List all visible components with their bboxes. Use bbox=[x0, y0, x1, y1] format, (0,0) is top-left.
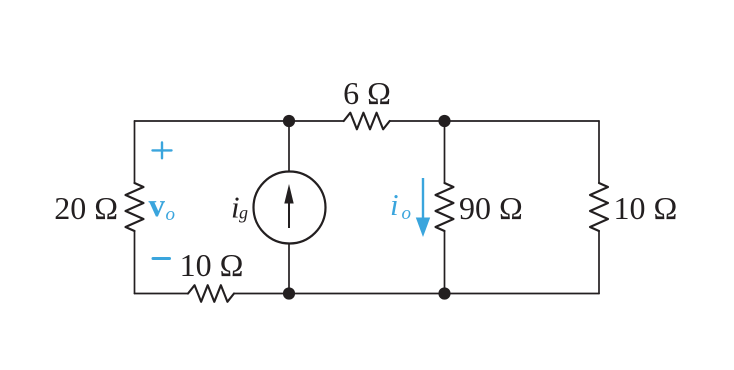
wire left lower bbox=[134, 231, 136, 294]
resistor 20 ohm (left) bbox=[126, 183, 144, 231]
junction node bottom-right bbox=[438, 287, 450, 299]
svg-text:10 Ω: 10 Ω bbox=[614, 190, 678, 226]
minus sign polarity vo bbox=[153, 257, 170, 260]
wire bottom-left segment bbox=[234, 293, 289, 295]
resistor 90 ohm (middle) bbox=[436, 183, 454, 231]
svg-text:90 Ω: 90 Ω bbox=[459, 190, 523, 226]
current source ig circle bbox=[254, 172, 326, 244]
wire middle branch bottom bbox=[288, 244, 290, 294]
wire top-left segment bbox=[135, 120, 344, 122]
wire right side bbox=[598, 121, 600, 183]
current source arrow bbox=[284, 184, 293, 228]
wire bottom-middle segment bbox=[289, 293, 445, 295]
junction node top-middle bbox=[283, 115, 295, 127]
svg-text:v: v bbox=[149, 188, 166, 224]
wire bottom-right segment bbox=[445, 293, 600, 295]
resistor 6 ohm (top) bbox=[344, 113, 390, 130]
wire right lower bbox=[598, 231, 600, 294]
svg-text:o: o bbox=[402, 203, 412, 224]
svg-text:20 Ω: 20 Ω bbox=[54, 190, 118, 226]
wire 90-ohm branch top bbox=[444, 121, 446, 183]
wire bottom far-left segment bbox=[135, 293, 189, 295]
wire left upper bbox=[134, 121, 136, 183]
resistor 10 ohm (right) bbox=[590, 183, 608, 231]
svg-text:o: o bbox=[166, 204, 176, 225]
io current arrow (blue, down) bbox=[416, 178, 430, 237]
wire middle branch top bbox=[288, 121, 290, 172]
svg-text:10 Ω: 10 Ω bbox=[180, 247, 244, 283]
plus sign polarity vo bbox=[153, 143, 172, 159]
junction node top-right bbox=[438, 115, 450, 127]
svg-text:6 Ω: 6 Ω bbox=[343, 75, 391, 111]
svg-text:i: i bbox=[390, 187, 399, 222]
wire top-right segment bbox=[390, 120, 599, 122]
svg-text:g: g bbox=[239, 203, 248, 223]
resistor 10 ohm (bottom) bbox=[188, 285, 234, 302]
wire 90-ohm branch bottom bbox=[444, 231, 446, 294]
junction node bottom-middle bbox=[283, 287, 295, 299]
